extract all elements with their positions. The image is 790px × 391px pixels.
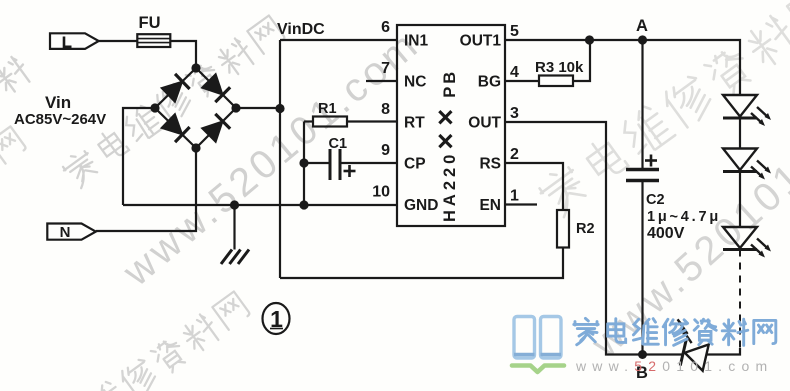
wire N to bridge bottom: [96, 148, 196, 231]
wire pin3 OUT down to B: [505, 122, 643, 355]
capacitor C1: [304, 136, 397, 180]
bridge diode D4 (bottom-right): [202, 114, 231, 143]
svg-text:OUT: OUT: [468, 115, 501, 132]
wire L to FU: [99, 40, 138, 42]
resistor R2: [557, 210, 595, 248]
watermark: chinese diagonal left: [60, 14, 287, 191]
resistor R1: [304, 101, 397, 127]
LED D6: [723, 149, 771, 180]
svg-text:OUT1: OUT1: [460, 33, 502, 50]
watermark: chinese diagonal bottom-left: [25, 290, 252, 391]
node bridge bottom: [191, 143, 200, 152]
bridge diode D1 (left-top): [161, 74, 190, 103]
LED D8 (bottom, pointing left): [668, 319, 713, 370]
wire FU to bridge top: [170, 41, 196, 68]
bridge diode D3 (left-bottom): [161, 114, 190, 143]
svg-text:Vin: Vin: [45, 93, 71, 112]
wire: [706, 348, 740, 355]
svg-text:www.520101.com: www.520101.com: [575, 358, 773, 374]
op IC U1 HA220xxPB box: [397, 25, 505, 226]
svg-text:R1: R1: [318, 101, 337, 117]
node bridge left: [150, 103, 159, 112]
left vertical wire R1/C1: [303, 122, 305, 206]
terminal N: [47, 224, 96, 242]
wire pin5 to LED string top: [505, 40, 740, 95]
fuse FU: [137, 14, 170, 47]
svg-text:RT: RT: [404, 115, 425, 132]
svg-text:IN1: IN1: [404, 33, 429, 50]
wire: [739, 118, 741, 149]
svg-text:6: 6: [381, 19, 390, 36]
svg-text:VinDC: VinDC: [277, 21, 325, 38]
bridge rectifier diamond: [155, 68, 236, 148]
node bridge right: [231, 103, 240, 112]
dashed wire (more LEDs): [739, 250, 741, 349]
svg-text:R2: R2: [576, 221, 595, 237]
node A: [638, 35, 647, 44]
logo book icon: [512, 317, 564, 373]
VinDC vertical wire: [279, 40, 281, 278]
watermark: corner char marks: [0, 54, 33, 96]
junction VinDC/bridge: [275, 104, 284, 113]
svg-text:C1: C1: [329, 136, 348, 152]
svg-text:400V: 400V: [647, 225, 685, 242]
svg-text:N: N: [60, 224, 71, 241]
svg-text:3: 3: [510, 105, 519, 122]
wire pin2 to R2: [505, 163, 563, 210]
svg-text:5: 5: [510, 23, 519, 40]
svg-text:FU: FU: [139, 14, 161, 32]
svg-text:C2: C2: [646, 192, 665, 208]
svg-text:RS: RS: [479, 156, 501, 173]
svg-text:CP: CP: [404, 156, 426, 173]
bridge diode D2 (top-right): [202, 74, 231, 103]
junction C1 left: [299, 158, 308, 167]
node bridge top: [191, 63, 200, 72]
watermark: chinese diagonal right: [535, 0, 790, 221]
wire B to LED: [643, 353, 684, 355]
figure number circled 1: [263, 303, 290, 334]
svg-text:A: A: [636, 17, 648, 35]
wire: [739, 172, 741, 228]
svg-text:7: 7: [381, 60, 390, 77]
capacitor C2: [626, 40, 659, 355]
svg-text:R3 10k: R3 10k: [535, 59, 584, 76]
resistor R3: [505, 40, 590, 86]
junction gnd tap: [230, 200, 239, 209]
svg-text:BG: BG: [478, 74, 501, 91]
svg-text:1μ~4.7μ: 1μ~4.7μ: [647, 209, 721, 225]
svg-text:NC: NC: [404, 74, 426, 91]
svg-text:2: 2: [510, 146, 519, 163]
junction R3/pin5: [585, 35, 594, 44]
svg-text:AC85V~264V: AC85V~264V: [14, 111, 106, 128]
svg-text:10: 10: [372, 184, 390, 201]
LED D5: [723, 95, 771, 126]
wire bridge left to gnd rail: [123, 108, 155, 205]
svg-text:4: 4: [510, 64, 519, 81]
LED D7: [723, 227, 771, 258]
junction gnd rail left vertical: [299, 200, 308, 209]
wire VinDC to pin6: [280, 39, 397, 41]
pin 7 NC stub: [366, 80, 397, 82]
wire bridge right to VinDC line: [236, 107, 280, 109]
svg-text:9: 9: [381, 142, 390, 159]
svg-text:1: 1: [510, 188, 519, 205]
node B: [638, 350, 647, 359]
logo text jiadian weixiu ziliao wang: [574, 318, 598, 344]
svg-text:GND: GND: [404, 197, 438, 214]
terminal L: [50, 33, 99, 49]
ground: [221, 205, 249, 264]
svg-text:EN: EN: [479, 197, 501, 214]
svg-text:8: 8: [381, 101, 390, 118]
gnd rail wire: [123, 204, 397, 206]
bottom bypass wire to R2: [280, 248, 563, 279]
pin 1 EN stub: [505, 203, 537, 205]
